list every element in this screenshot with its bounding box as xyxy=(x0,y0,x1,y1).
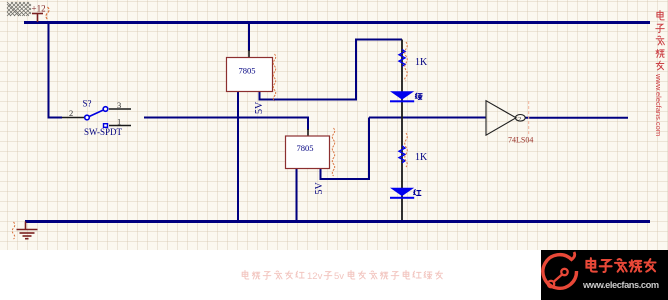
svg-text:74LS04: 74LS04 xyxy=(508,136,533,145)
svg-text:5V: 5V xyxy=(254,101,265,114)
svg-text:5v: 5v xyxy=(334,271,344,282)
svg-text:1K: 1K xyxy=(415,57,428,68)
svg-text:12v: 12v xyxy=(307,271,323,282)
svg-text:7805: 7805 xyxy=(239,66,256,76)
svg-text:www.elecfans.com: www.elecfans.com xyxy=(654,73,663,136)
svg-text:1K: 1K xyxy=(415,152,428,163)
svg-text:SW-SPDT: SW-SPDT xyxy=(84,127,123,137)
svg-text:5V: 5V xyxy=(314,182,325,195)
svg-text:2: 2 xyxy=(69,108,73,118)
svg-text:S?: S? xyxy=(83,99,92,109)
svg-text:1: 1 xyxy=(117,117,121,127)
svg-text:3: 3 xyxy=(117,100,121,110)
svg-text:+12: +12 xyxy=(32,4,46,14)
svg-text:7805: 7805 xyxy=(297,143,314,153)
svg-text:2: 2 xyxy=(518,116,521,123)
